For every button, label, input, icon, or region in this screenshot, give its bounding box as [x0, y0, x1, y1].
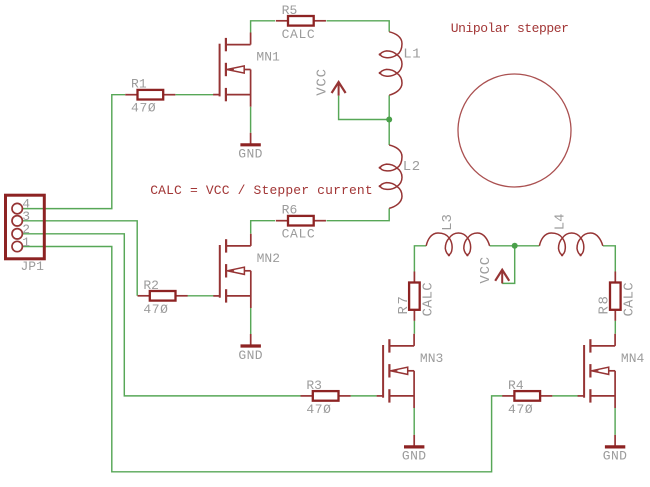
ground GND1: [238, 133, 263, 162]
wire MN2 source to GND2: [250, 308, 252, 334]
svg-text:47Ø: 47Ø: [143, 302, 168, 317]
resistor R2: [138, 278, 188, 317]
wire R3 to MN3 gate: [351, 395, 377, 397]
wire L3 left to R7: [414, 246, 426, 272]
resistor R6: [276, 203, 326, 242]
svg-text:GND: GND: [238, 348, 263, 363]
wire MN4 source to GND4: [614, 408, 616, 435]
transistor MN1: [213, 33, 280, 107]
resistor R5: [276, 3, 326, 42]
svg-text:R6: R6: [282, 203, 298, 218]
wire L3 to junction 2: [490, 245, 515, 247]
svg-text:CALC: CALC: [621, 282, 637, 316]
node junction L3-L4-VCC: [512, 243, 518, 249]
wire R7 to MN3 drain: [413, 321, 415, 334]
wire R2 to MN2 gate: [187, 295, 214, 297]
connector JP1: [6, 195, 45, 259]
svg-text:VCC: VCC: [314, 68, 330, 96]
svg-text:L2: L2: [403, 159, 421, 175]
svg-text:CALC: CALC: [282, 27, 316, 42]
wire MN1 source to GND1: [250, 107, 252, 133]
ground GND3: [402, 435, 427, 464]
inductor L3: [426, 233, 489, 255]
wire R1 to MN1 gate: [175, 94, 213, 96]
wire pin3 JP1 to riser down to R2: [22, 221, 137, 296]
inductor L2: [380, 145, 402, 208]
wire junction 2 to L4: [515, 245, 540, 247]
wire junction 2 down to VCC2: [502, 246, 515, 284]
resistor R7: [396, 272, 437, 321]
svg-text:L4: L4: [552, 213, 568, 230]
svg-text:MN1: MN1: [256, 50, 280, 65]
wire junction down to L2 top: [388, 120, 390, 146]
wire L4 right to R8: [603, 246, 615, 272]
wire R8 to MN4 drain: [614, 321, 616, 334]
svg-text:47Ø: 47Ø: [508, 402, 533, 417]
svg-text:VCC: VCC: [478, 256, 494, 284]
svg-text:R1: R1: [131, 77, 147, 92]
ground GND2: [238, 334, 263, 363]
wire L1 bottom to junction: [388, 95, 390, 119]
wire VCC1 to junction: [339, 96, 390, 120]
resistor R3: [301, 378, 351, 417]
wire pin1 JP1 riser down bottom run to R4 riser: [22, 247, 502, 472]
wire MN1 drain to R5: [251, 21, 276, 33]
wire pin4 JP1 to riser and up to R1 row: [22, 95, 125, 209]
power VCC1: [314, 68, 345, 96]
svg-text:CALC: CALC: [420, 282, 436, 316]
svg-text:R5: R5: [282, 3, 298, 18]
transistor MN2: [213, 234, 280, 308]
svg-text:MN2: MN2: [257, 251, 280, 266]
resistor R8: [597, 272, 638, 321]
svg-text:MN3: MN3: [420, 351, 443, 366]
svg-text:CALC: CALC: [282, 227, 316, 242]
inductor L4: [539, 233, 602, 255]
power VCC2: [478, 256, 509, 284]
svg-text:CALC = VCC / Stepper current: CALC = VCC / Stepper current: [150, 183, 373, 198]
svg-text:L3: L3: [440, 214, 456, 231]
motor circle: [458, 74, 571, 187]
wire R4 to MN4 gate: [552, 395, 578, 397]
svg-text:Unipolar stepper: Unipolar stepper: [451, 21, 569, 36]
svg-text:GND: GND: [238, 147, 263, 162]
svg-text:JP1: JP1: [21, 259, 45, 274]
ground GND4: [603, 435, 628, 464]
svg-text:L1: L1: [403, 46, 421, 62]
svg-text:R4: R4: [508, 378, 524, 393]
inductor L1: [380, 32, 402, 95]
wire R6 to MN2 drain: [251, 221, 275, 234]
resistor R4: [502, 378, 552, 417]
wire R5 to L1 top: [327, 21, 390, 32]
svg-text:MN4: MN4: [621, 351, 645, 366]
svg-text:R7: R7: [396, 295, 412, 315]
svg-text:R8: R8: [597, 295, 613, 315]
transistor MN4: [578, 334, 645, 408]
transistor MN3: [377, 334, 444, 408]
node junction L1-L2-VCC: [386, 117, 392, 123]
svg-text:GND: GND: [402, 449, 427, 464]
wire pin2 JP1 riser down to R3 row: [22, 234, 301, 396]
svg-text:47Ø: 47Ø: [306, 402, 331, 417]
resistor R1: [125, 77, 175, 116]
svg-text:1: 1: [22, 235, 30, 250]
wire L2 bottom to R6: [327, 208, 390, 220]
svg-text:47Ø: 47Ø: [131, 101, 156, 116]
svg-text:R3: R3: [306, 378, 322, 393]
svg-text:R2: R2: [143, 278, 159, 293]
svg-text:GND: GND: [603, 449, 628, 464]
wire MN3 source to GND3: [413, 408, 415, 435]
